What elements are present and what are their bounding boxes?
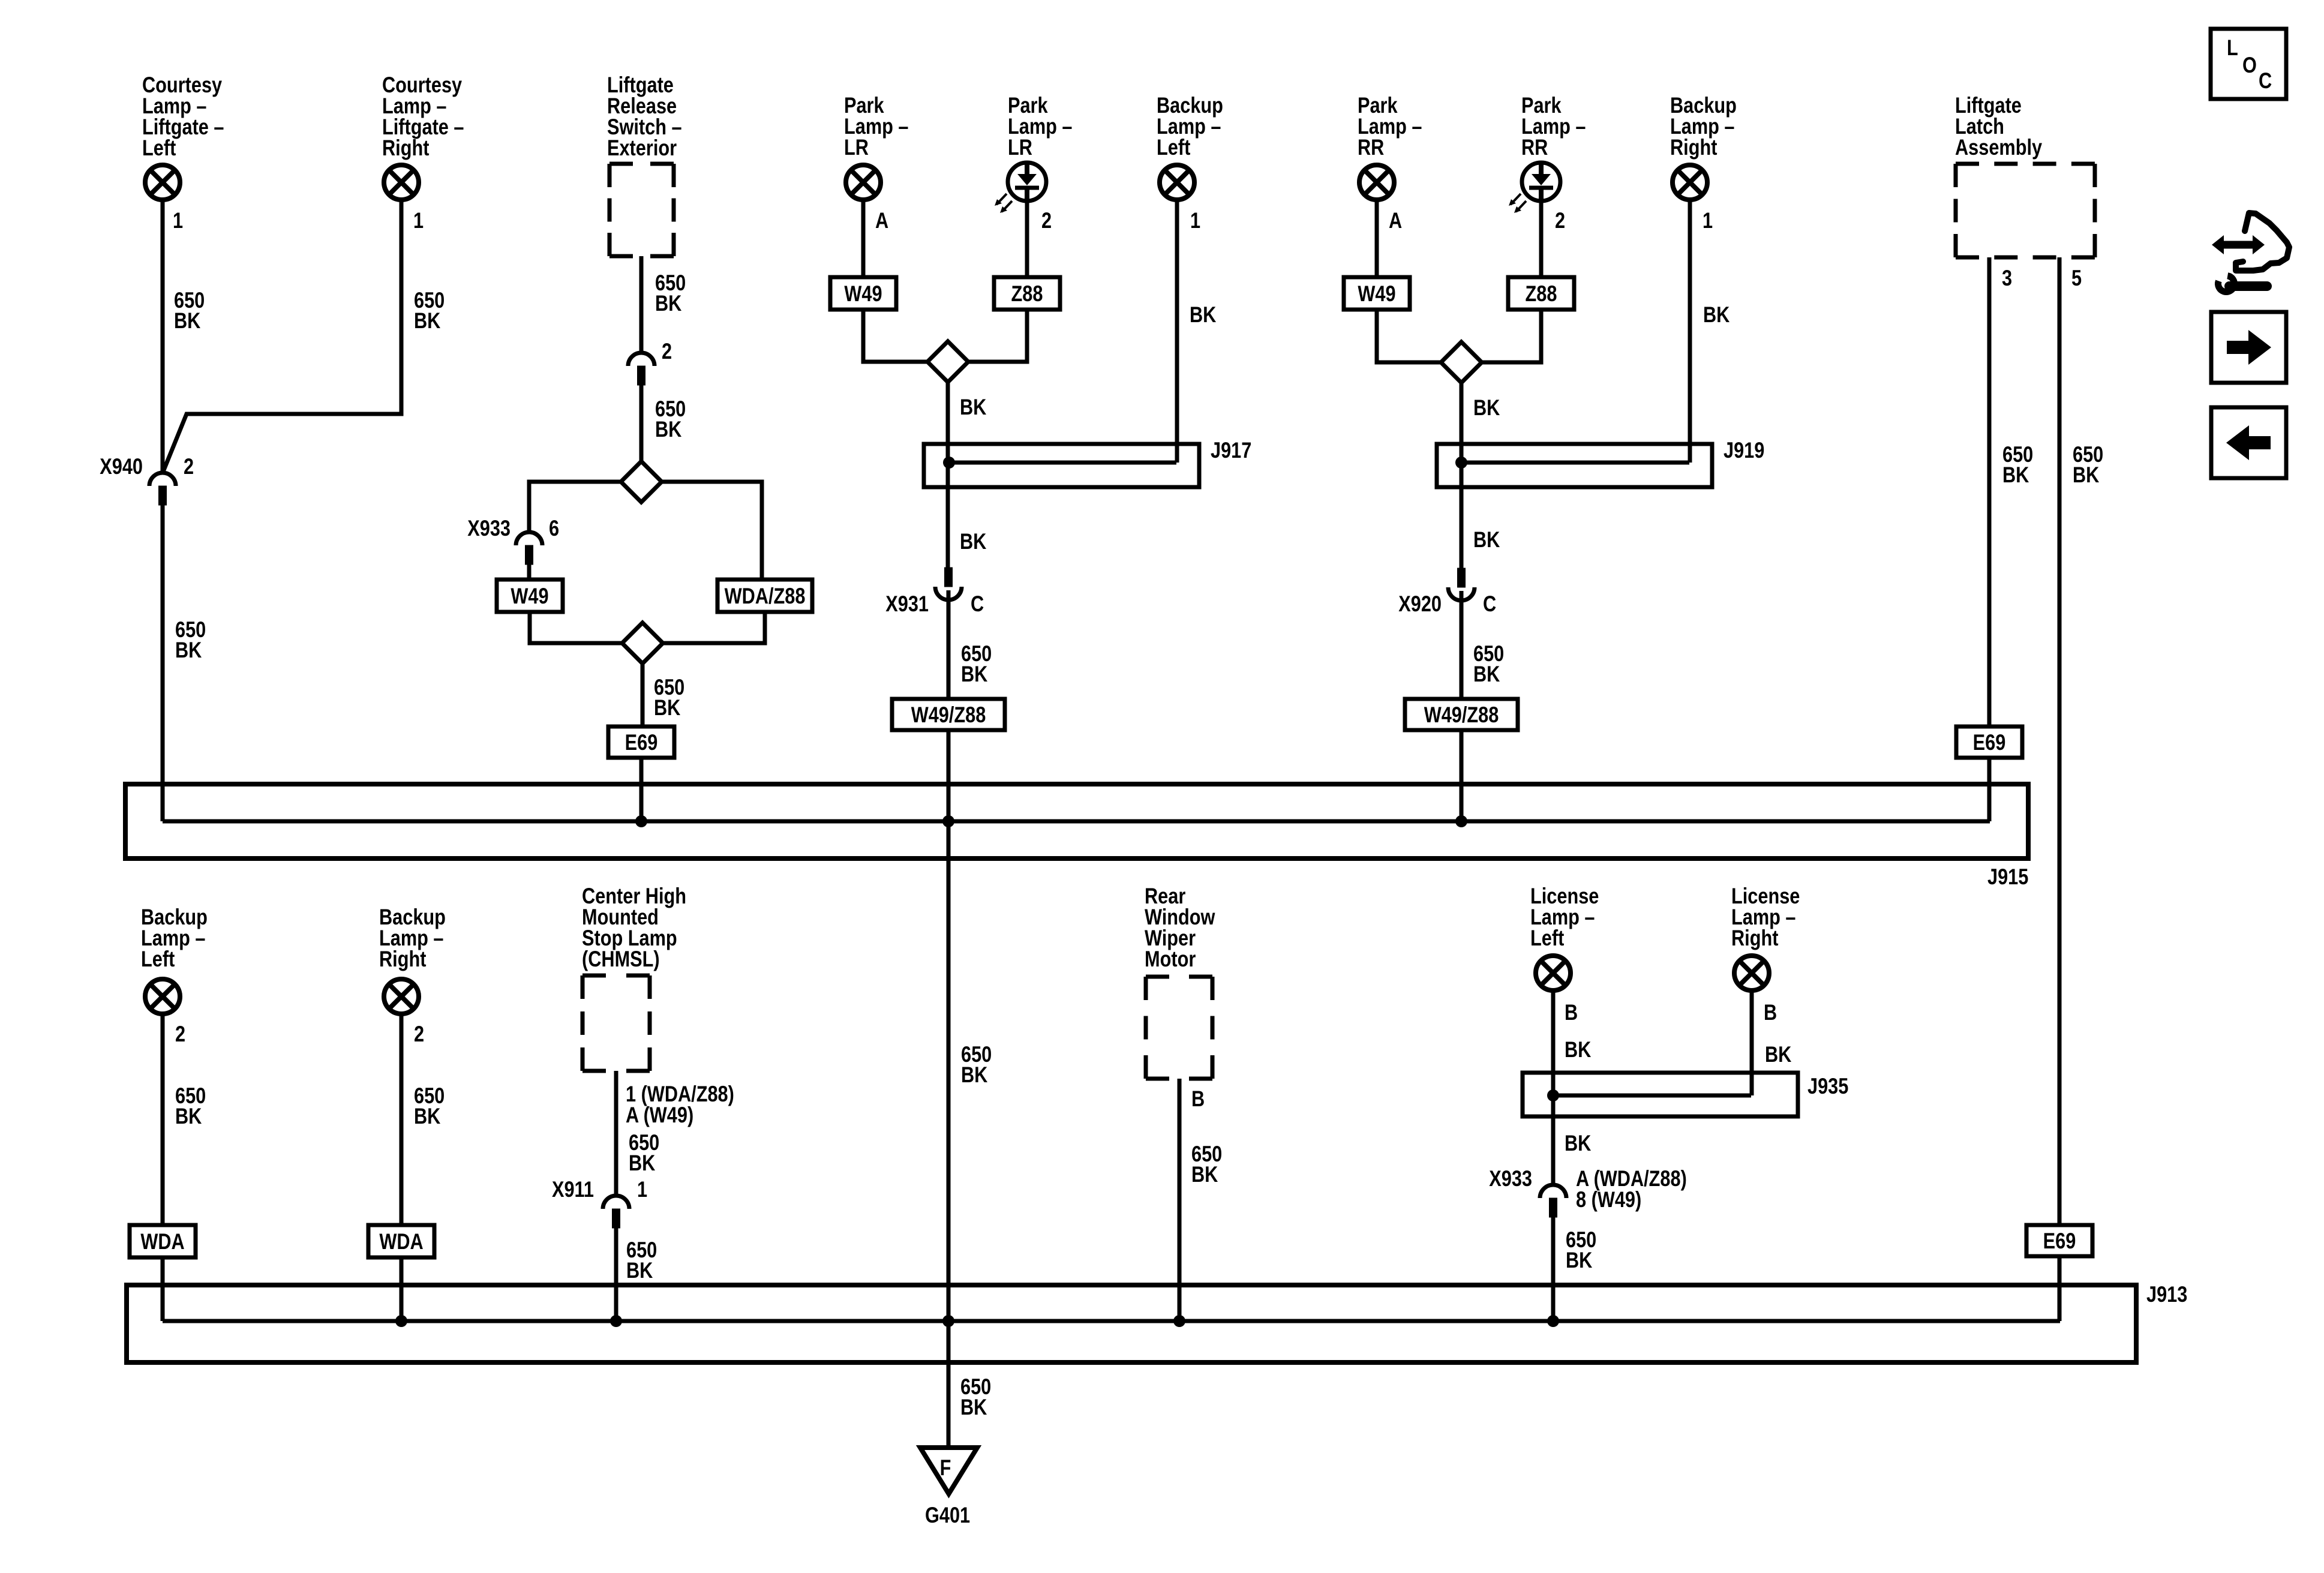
svg-text:J919: J919 bbox=[1724, 438, 1764, 463]
junction on J915 (right) bbox=[1455, 815, 1467, 827]
harness code box Z88 bbox=[994, 277, 1060, 310]
connector X940 pin 2 bbox=[149, 473, 176, 505]
junction box J935 bbox=[1523, 1073, 1798, 1116]
J935 inner bus bbox=[1553, 1094, 1751, 1098]
J913 inner bus line bbox=[163, 1319, 2060, 1323]
wire: main ground wire to G401 bbox=[947, 730, 951, 1448]
wire: X920 to W49/Z88 box bbox=[1460, 591, 1464, 699]
wire: courtesy right lamp to X940 bbox=[163, 202, 401, 472]
svg-text:2: 2 bbox=[414, 1022, 424, 1046]
junction on J915 (main) bbox=[942, 815, 954, 827]
LOC reference box bbox=[2211, 29, 2286, 99]
ground code box E69 (lower right) bbox=[2026, 1225, 2092, 1256]
Liftgate Release Switch - Exterior (dashed) bbox=[609, 164, 674, 256]
svg-text:Left: Left bbox=[141, 947, 175, 971]
svg-text:8 (W49): 8 (W49) bbox=[1576, 1187, 1641, 1212]
junction on J913 (CHMSL) bbox=[610, 1315, 622, 1327]
harness code box W49/Z88 (left) bbox=[892, 699, 1005, 730]
svg-text:X933: X933 bbox=[467, 516, 511, 541]
wire: courtesy left lamp to X940 bbox=[161, 202, 165, 472]
wire: WDA to J913 bbox=[161, 1257, 165, 1321]
svg-text:BK: BK bbox=[655, 417, 682, 442]
icon box: arrow right bbox=[2211, 312, 2286, 383]
wire: X911 to J913 bbox=[614, 1228, 618, 1321]
svg-text:BK: BK bbox=[1703, 302, 1730, 327]
svg-text:BK: BK bbox=[960, 529, 987, 554]
svg-text:BK: BK bbox=[2002, 463, 2029, 487]
lamp: Park Lamp LR bbox=[846, 165, 881, 200]
wire: WDA/Z88 box to lower diamond bbox=[663, 612, 765, 643]
svg-text:2: 2 bbox=[662, 339, 672, 364]
svg-text:O: O bbox=[2242, 53, 2257, 77]
wire: license left through J935 to X933 bbox=[1551, 992, 1556, 1185]
connector X933 pin 6 bbox=[516, 532, 542, 565]
wire: diamond to E69 bbox=[641, 664, 645, 727]
svg-text:1: 1 bbox=[413, 208, 424, 233]
connector X933 pin A/8 bbox=[1540, 1185, 1566, 1217]
wire: diamond to X933 bbox=[529, 482, 621, 532]
svg-text:BK: BK bbox=[1473, 662, 1500, 686]
svg-text:X931: X931 bbox=[885, 592, 929, 616]
svg-text:E69: E69 bbox=[1973, 730, 2006, 755]
LED lamp: Park Lamp LR bbox=[995, 163, 1046, 213]
svg-text:B: B bbox=[1191, 1086, 1205, 1111]
wire: X933 to J913 bbox=[1551, 1217, 1556, 1321]
svg-text:A: A bbox=[1389, 208, 1402, 233]
wire: diamond to WDA/Z88 box bbox=[662, 482, 762, 580]
svg-text:J913: J913 bbox=[2146, 1282, 2187, 1307]
svg-text:BK: BK bbox=[2073, 463, 2100, 487]
svg-text:F: F bbox=[940, 1455, 951, 1480]
svg-text:BK: BK bbox=[414, 308, 441, 333]
svg-text:W49/Z88: W49/Z88 bbox=[1424, 703, 1499, 727]
svg-text:Left: Left bbox=[142, 136, 176, 160]
junction on J913 (wiper) bbox=[1173, 1315, 1185, 1327]
svg-text:E69: E69 bbox=[625, 730, 658, 755]
svg-text:RR: RR bbox=[1358, 135, 1384, 160]
svg-text:BK: BK bbox=[175, 1104, 202, 1128]
wire: release switch to conn 2 bbox=[639, 256, 644, 353]
svg-text:L: L bbox=[2227, 35, 2238, 60]
wire: backup right to J919 bbox=[1688, 202, 1692, 463]
harness code box W49 (park RR) bbox=[1344, 277, 1410, 310]
wire: wiper motor to J913 bbox=[1178, 1079, 1182, 1321]
svg-text:BK: BK bbox=[1473, 527, 1500, 552]
svg-text:LR: LR bbox=[844, 135, 869, 160]
harness code box Z88 (RR) bbox=[1508, 277, 1574, 310]
J917 inner bus bbox=[949, 461, 1176, 465]
lamp: Backup Lamp Left (top) bbox=[1160, 165, 1194, 200]
svg-text:6: 6 bbox=[549, 516, 559, 541]
svg-text:BK: BK bbox=[1565, 1037, 1592, 1062]
connector pin 2 (release switch) bbox=[628, 353, 654, 385]
svg-text:X920: X920 bbox=[1398, 592, 1442, 616]
harness code box WDA (right) bbox=[368, 1225, 434, 1257]
icon: liftgate adjust/service (double arrow, panel outline, wrench) bbox=[2212, 213, 2289, 292]
svg-text:B: B bbox=[1764, 1000, 1777, 1025]
svg-text:C: C bbox=[1483, 592, 1496, 616]
wire: W49/Z88 to J915 bbox=[1460, 730, 1464, 821]
svg-text:WDA: WDA bbox=[140, 1229, 184, 1254]
Rear Window Wiper Motor (dashed) bbox=[1146, 977, 1212, 1079]
lamp: License Lamp Left bbox=[1536, 956, 1571, 990]
svg-text:BK: BK bbox=[174, 308, 201, 333]
junction in J919 bbox=[1455, 457, 1467, 469]
junction on J913 (license) bbox=[1547, 1315, 1559, 1327]
svg-text:Right: Right bbox=[379, 947, 426, 971]
junction box J919 bbox=[1437, 444, 1712, 487]
svg-text:E69: E69 bbox=[2043, 1229, 2076, 1253]
icon box: arrow left bbox=[2211, 407, 2286, 478]
wire: backup left to J917 bbox=[1175, 202, 1179, 463]
ground code box E69 (right) bbox=[1956, 727, 2022, 758]
connector X920 pin C bbox=[1448, 568, 1475, 601]
svg-text:2: 2 bbox=[1555, 208, 1565, 233]
svg-text:1: 1 bbox=[173, 208, 183, 233]
svg-text:BK: BK bbox=[960, 395, 987, 419]
wire: conn 2 to splice diamond bbox=[639, 385, 644, 461]
svg-text:J915: J915 bbox=[1987, 864, 2028, 889]
svg-text:BK: BK bbox=[1565, 1131, 1592, 1155]
svg-text:J935: J935 bbox=[1807, 1074, 1848, 1098]
svg-text:WDA/Z88: WDA/Z88 bbox=[725, 584, 806, 608]
svg-text:LR: LR bbox=[1008, 135, 1032, 160]
lamp: License Lamp Right bbox=[1734, 956, 1769, 990]
wire: X933 to W49 box bbox=[527, 565, 532, 580]
harness code box W49 bbox=[497, 580, 563, 612]
splice diamond (to E69) bbox=[622, 623, 663, 664]
lamp: Courtesy Lamp Liftgate Right bbox=[384, 165, 419, 200]
junction on J913 (main) bbox=[942, 1315, 954, 1327]
wire: diamond through J919 to X920 bbox=[1460, 383, 1464, 568]
junction box J917 bbox=[924, 444, 1199, 487]
harness code box W49/Z88 (right) bbox=[1405, 699, 1518, 730]
wire: LED to Z88 box bbox=[1539, 203, 1544, 277]
svg-text:Z88: Z88 bbox=[1526, 281, 1557, 306]
harness code box W49 (park LR) bbox=[830, 277, 896, 310]
wire: X940 to J915 bbox=[161, 505, 165, 821]
svg-text:BK: BK bbox=[626, 1258, 653, 1283]
svg-text:5: 5 bbox=[2071, 266, 2082, 290]
svg-text:Right: Right bbox=[382, 136, 429, 160]
wire: E69 to J915 bbox=[639, 758, 644, 821]
svg-text:3: 3 bbox=[2002, 266, 2012, 290]
wire: park LR to W49 box bbox=[861, 202, 866, 277]
wire: backup right to WDA bbox=[400, 1016, 404, 1225]
junction in J917 bbox=[943, 457, 955, 469]
svg-text:2: 2 bbox=[1041, 208, 1052, 233]
svg-text:W49: W49 bbox=[511, 584, 548, 608]
junction box J913 bbox=[127, 1285, 2136, 1362]
wire: WDA to J913 bbox=[400, 1257, 404, 1321]
J919 inner bus bbox=[1461, 461, 1689, 465]
wire: latch pin 5 to E69 lower bbox=[2058, 257, 2062, 1225]
junction in J935 bbox=[1547, 1089, 1559, 1101]
svg-text:BK: BK bbox=[1190, 302, 1217, 327]
svg-text:BK: BK bbox=[654, 695, 681, 720]
svg-text:J917: J917 bbox=[1211, 438, 1251, 463]
svg-text:BK: BK bbox=[1473, 395, 1500, 420]
svg-text:BK: BK bbox=[961, 1062, 988, 1087]
wire: W49 to diamond bbox=[863, 310, 927, 362]
splice diamond (park LR) bbox=[927, 341, 968, 382]
junction on J915 bbox=[635, 815, 647, 827]
wire: W49 box to lower diamond bbox=[530, 612, 622, 643]
svg-text:W49: W49 bbox=[844, 281, 882, 306]
harness code box WDA/Z88 bbox=[717, 580, 812, 612]
svg-text:BK: BK bbox=[1566, 1248, 1593, 1272]
wire: E69 to J915 bus bbox=[1987, 758, 1992, 821]
svg-text:C: C bbox=[2259, 68, 2272, 93]
svg-text:2: 2 bbox=[184, 454, 194, 479]
wire: park RR to W49 box bbox=[1375, 202, 1379, 277]
svg-text:1: 1 bbox=[1190, 208, 1200, 233]
lamp: Backup Lamp Right (bottom) bbox=[384, 979, 419, 1014]
svg-text:B: B bbox=[1565, 1000, 1578, 1025]
wire: LED to Z88 box bbox=[1025, 203, 1029, 277]
CHMSL (dashed) bbox=[582, 975, 650, 1071]
svg-text:G401: G401 bbox=[925, 1503, 970, 1527]
svg-text:X940: X940 bbox=[100, 454, 143, 479]
svg-text:(CHMSL): (CHMSL) bbox=[582, 947, 660, 971]
wire: X931 to W49/Z88 box bbox=[947, 590, 951, 699]
svg-text:C: C bbox=[971, 592, 984, 616]
ground code box E69 (left) bbox=[608, 727, 674, 758]
wire: diamond through J917 to X931 bbox=[946, 382, 950, 568]
svg-text:Exterior: Exterior bbox=[607, 136, 677, 160]
splice diamond (release switch) bbox=[621, 461, 662, 502]
wire: Z88 to diamond bbox=[1482, 310, 1541, 362]
wire: E69 to J913 bus bbox=[2058, 1256, 2062, 1321]
junction on J913 (backup right) bbox=[395, 1315, 407, 1327]
svg-text:1: 1 bbox=[637, 1177, 647, 1202]
svg-text:BK: BK bbox=[1765, 1042, 1792, 1067]
svg-text:W49/Z88: W49/Z88 bbox=[911, 703, 986, 727]
svg-text:Motor: Motor bbox=[1145, 947, 1196, 971]
svg-text:1: 1 bbox=[1703, 208, 1713, 233]
svg-text:BK: BK bbox=[655, 291, 682, 316]
svg-text:X933: X933 bbox=[1489, 1166, 1532, 1191]
svg-text:Assembly: Assembly bbox=[1955, 135, 2042, 160]
svg-text:BK: BK bbox=[629, 1151, 656, 1175]
svg-text:Left: Left bbox=[1157, 135, 1190, 160]
svg-text:BK: BK bbox=[175, 638, 202, 662]
LED lamp: Park Lamp RR bbox=[1509, 163, 1560, 213]
Liftgate Latch Assembly (dashed) bbox=[1956, 164, 2095, 257]
svg-text:W49: W49 bbox=[1358, 281, 1395, 306]
svg-text:X911: X911 bbox=[552, 1177, 594, 1202]
J915 inner bus line bbox=[163, 819, 1990, 824]
svg-text:Right: Right bbox=[1731, 926, 1778, 950]
connector X931 pin C bbox=[935, 568, 962, 600]
svg-text:WDA: WDA bbox=[379, 1229, 423, 1254]
junction box J915 bbox=[125, 784, 2028, 858]
splice diamond (park RR) bbox=[1441, 342, 1482, 383]
svg-text:BK: BK bbox=[1191, 1162, 1218, 1187]
svg-text:RR: RR bbox=[1521, 135, 1548, 160]
svg-text:2: 2 bbox=[175, 1022, 185, 1046]
svg-text:BK: BK bbox=[414, 1104, 441, 1128]
svg-text:Z88: Z88 bbox=[1011, 281, 1043, 306]
wire: Z88 to diamond bbox=[968, 310, 1027, 362]
lamp: Courtesy Lamp Liftgate Left bbox=[145, 165, 180, 200]
svg-text:Left: Left bbox=[1530, 926, 1564, 950]
wire: backup left to WDA bbox=[161, 1016, 165, 1225]
lamp: Park Lamp RR bbox=[1359, 165, 1394, 200]
wire: W49 to diamond bbox=[1377, 310, 1441, 362]
lamp: Backup Lamp Right (top) bbox=[1673, 165, 1707, 200]
svg-text:Right: Right bbox=[1670, 135, 1717, 160]
svg-text:A (W49): A (W49) bbox=[626, 1103, 693, 1127]
harness code box WDA (left) bbox=[130, 1225, 196, 1257]
svg-text:A: A bbox=[875, 208, 888, 233]
svg-text:BK: BK bbox=[960, 1395, 987, 1419]
wire: CHMSL to X911 bbox=[614, 1071, 618, 1196]
ground G401 bbox=[920, 1448, 977, 1494]
wire: latch pin 3 to E69 bbox=[1987, 257, 1992, 727]
wire: license right to J935 bus bbox=[1750, 992, 1754, 1095]
svg-text:BK: BK bbox=[961, 662, 988, 686]
lamp: Backup Lamp Left (bottom) bbox=[145, 979, 180, 1014]
connector X911 pin 1 bbox=[603, 1196, 629, 1228]
